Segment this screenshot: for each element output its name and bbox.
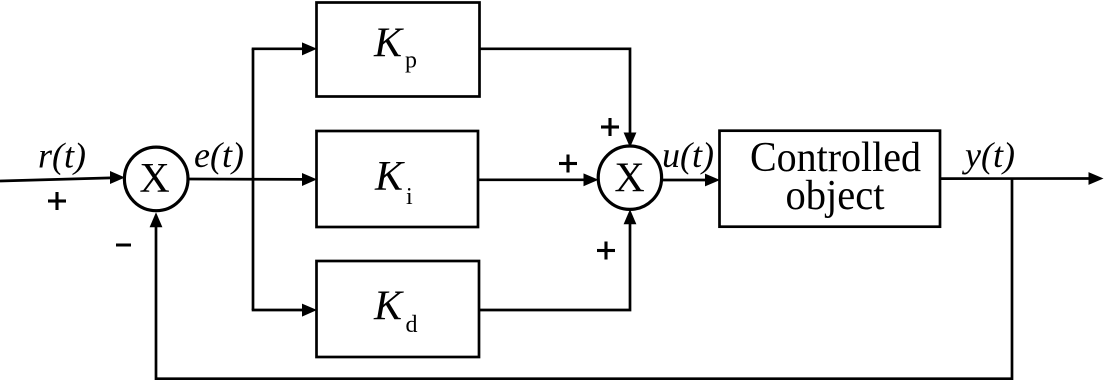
svg-text:K: K [373, 20, 404, 66]
wire branch vertical [252, 49, 255, 310]
svg-text:u(t): u(t) [662, 135, 714, 175]
wire branch to Kp [252, 47, 304, 50]
wire u(t) to controlled object [661, 179, 708, 182]
svg-text:X: X [139, 156, 169, 202]
plus sign at r(t) input [48, 192, 66, 210]
arrowhead into S2 bottom [624, 209, 637, 224]
wire e(t) to Ki [188, 178, 304, 181]
summing junction S1 [124, 147, 188, 211]
plus sign at S2 left input [559, 155, 577, 173]
plus sign at S2 bottom input [597, 242, 615, 260]
wire Ki output [478, 178, 585, 181]
svg-text:K: K [374, 154, 405, 200]
wire Kp output [480, 49, 631, 141]
svg-text:y(t): y(t) [962, 135, 1015, 175]
wire Kd output [480, 216, 631, 310]
arrowhead into block Ki [302, 173, 317, 186]
svg-text:p: p [405, 48, 417, 74]
svg-text:X: X [614, 155, 644, 201]
block Ki [317, 131, 479, 227]
plus sign at S2 top input [601, 118, 619, 136]
svg-text:r(t): r(t) [38, 136, 86, 176]
block controlled object [720, 131, 941, 227]
wire input r(t) [0, 178, 111, 181]
block Kd [317, 261, 480, 357]
block Kp [317, 3, 480, 97]
wire feedback [156, 179, 1012, 379]
arrowhead into summing junction S1 [110, 171, 125, 184]
wire branch to Kd [252, 309, 304, 312]
arrowhead output right [1089, 172, 1104, 185]
arrowhead into S2 top [624, 133, 637, 148]
svg-text:d: d [406, 312, 418, 338]
arrowhead into block Kp [302, 42, 317, 55]
arrowhead into block controlled object [705, 174, 720, 187]
svg-text:K: K [373, 284, 404, 330]
svg-text:object: object [786, 173, 885, 219]
arrowhead into block Kd [302, 304, 317, 317]
wire output y(t) [940, 177, 1090, 180]
minus sign at feedback input [116, 244, 131, 247]
arrowhead into S1 bottom [150, 212, 163, 227]
summing junction S2 [598, 146, 661, 209]
arrowhead into S2 left [584, 173, 599, 186]
svg-text:i: i [406, 184, 413, 210]
svg-text:e(t): e(t) [194, 135, 244, 175]
